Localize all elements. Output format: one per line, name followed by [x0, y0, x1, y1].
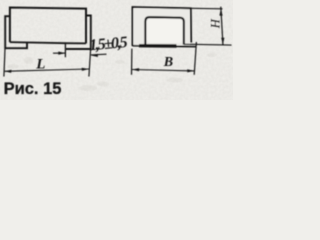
extension line H top	[191, 7, 223, 10]
right view: inner body interior	[147, 19, 183, 44]
right view: outer bottom edge with flange	[132, 46, 196, 47]
extension line B right	[194, 42, 196, 75]
right view: inner body (rounded)	[145, 17, 184, 44]
right view: inner body thick bottom	[139, 44, 177, 48]
right view: interior shading	[134, 9, 190, 46]
dimension 1,5 right arrow with tail	[91, 53, 107, 56]
left view: right terminal cap	[65, 16, 90, 50]
extension line L right / cap outer	[89, 49, 91, 76]
paper background	[0, 0, 233, 100]
svg-text:L: L	[35, 56, 45, 72]
svg-text:B: B	[163, 55, 173, 70]
left view: component body outline	[10, 8, 86, 44]
extension line B left	[131, 49, 133, 75]
dimension 1,5 left arrow	[53, 52, 65, 54]
right view: outer outline	[132, 7, 191, 46]
left view: body bottom edge	[10, 42, 86, 43]
svg-text:Рис. 15: Рис. 15	[4, 80, 62, 98]
dimension line B	[132, 70, 195, 71]
svg-text:H: H	[208, 18, 222, 29]
extension line 1,5 inner tab	[64, 42, 66, 57]
left view: left terminal cap	[5, 16, 27, 48]
extension line L left	[4, 49, 5, 77]
dimension line H	[221, 7, 223, 46]
extension line H bottom	[184, 43, 232, 46]
faint paper smudges	[7, 53, 217, 91]
svg-text:1,5±0,5: 1,5±0,5	[88, 34, 128, 54]
dimension line L	[4, 69, 89, 71]
